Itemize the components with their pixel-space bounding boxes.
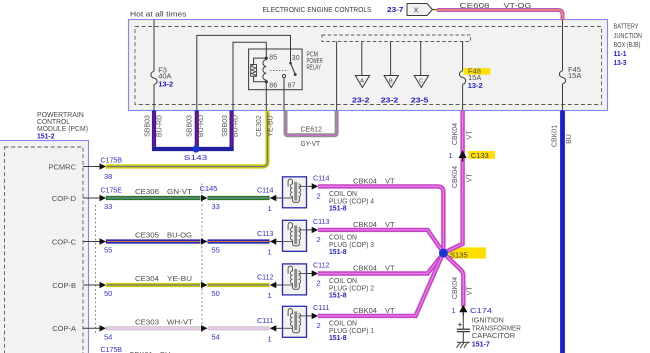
coil on plug (COP) 4 box <box>283 177 307 208</box>
wire SBB03 BU-RD from relay pin 85 <box>230 111 234 150</box>
svg-text:38: 38 <box>104 172 112 181</box>
powertrain control module (PCM) outline <box>0 141 89 353</box>
svg-text:C175B: C175B <box>101 345 123 353</box>
battery junction box (BJB) outline <box>129 20 608 111</box>
svg-text:JUNCTION: JUNCTION <box>614 31 643 40</box>
svg-text:151-2: 151-2 <box>37 131 55 140</box>
svg-text:50: 50 <box>104 289 112 298</box>
coil 3 symbol <box>283 223 306 246</box>
svg-text:2: 2 <box>317 192 321 201</box>
highlight on fuse F48 label <box>464 68 491 74</box>
label F48 15A 13-2 <box>468 67 483 90</box>
svg-text:23-2: 23-2 <box>381 96 399 105</box>
svg-text:COP-A: COP-A <box>52 324 76 333</box>
svg-text:23-2: 23-2 <box>352 96 370 105</box>
svg-text:VT: VT <box>467 286 474 296</box>
svg-text:CBK04: CBK04 <box>353 306 377 315</box>
relay pin 87 contact <box>282 75 285 78</box>
svg-text:CE304: CE304 <box>135 274 159 283</box>
coil 2 output arrow <box>307 273 313 275</box>
svg-text:C113: C113 <box>257 229 274 238</box>
svg-text:SBB03: SBB03 <box>187 115 194 137</box>
wire CE303 WH-VT segment 2 <box>208 326 270 330</box>
svg-text:55: 55 <box>104 246 112 255</box>
svg-text:CE612: CE612 <box>301 125 323 134</box>
coil 4 symbol <box>283 179 306 202</box>
svg-text:COP-B: COP-B <box>52 281 76 290</box>
pin stub PCMRC <box>83 166 101 168</box>
connector CE612 GY-VT u-loop from relay pin 87 <box>286 111 337 136</box>
svg-text:Hot at all times: Hot at all times <box>130 9 187 18</box>
svg-text:BOX (BJB): BOX (BJB) <box>614 40 641 49</box>
connector C145 arrow <box>201 195 208 201</box>
wire CE303 WH-VT segment 1 <box>106 326 201 330</box>
coil on plug (COP) 1 box <box>283 306 307 337</box>
coil 2 symbol <box>283 266 306 289</box>
relay U-box PCM POWER RELAY <box>249 49 303 90</box>
connector C113 pin 1 arrow <box>270 238 277 244</box>
wire CE302 YE-BU from relay pin 86 to PCMRC <box>106 111 268 167</box>
coil on plug (COP) 3 box <box>283 220 307 251</box>
relay actuation dotted link <box>270 69 287 71</box>
svg-text:CE306: CE306 <box>135 187 159 196</box>
svg-text:C111: C111 <box>257 316 274 325</box>
fuse F45 <box>559 71 565 84</box>
wire: relay pin 30 feed (top horizontal) <box>197 35 291 110</box>
svg-text:VT: VT <box>385 264 395 273</box>
svg-text:YE-BU: YE-BU <box>167 274 192 283</box>
wire CBK04 VT from coil 4 to S135 <box>318 186 443 252</box>
coil 1 symbol <box>283 309 306 333</box>
svg-text:C133: C133 <box>471 151 489 160</box>
fuse F3 <box>151 71 157 84</box>
coil on plug (COP) 2 box <box>283 264 307 295</box>
svg-text:VT: VT <box>466 130 473 140</box>
svg-text:COP-C: COP-C <box>52 237 77 246</box>
wire CE608 VT-OG from X to F45 <box>437 10 563 20</box>
wire: relay pin 85 feed <box>233 42 266 110</box>
svg-text:C175B: C175B <box>101 156 123 165</box>
svg-text:CBK04: CBK04 <box>353 177 377 186</box>
wire CBK01 BU from F45 down right side <box>560 111 565 353</box>
svg-text:GY-VT: GY-VT <box>301 139 321 148</box>
wire CE306 GN-VT segment 2 <box>208 196 270 200</box>
svg-text:2: 2 <box>317 279 321 288</box>
svg-text:CE303: CE303 <box>135 318 159 327</box>
svg-text:C: C <box>419 78 423 84</box>
svg-text:C114: C114 <box>313 174 330 183</box>
svg-text:1: 1 <box>452 306 456 315</box>
svg-text:13-2: 13-2 <box>158 79 173 88</box>
pin stub COP-D <box>83 197 101 199</box>
splice S143 dot <box>192 145 199 152</box>
svg-text:B: B <box>389 78 393 84</box>
relay pin labels <box>269 54 299 89</box>
svg-text:BU-RD: BU-RD <box>233 115 240 137</box>
svg-text:S143: S143 <box>184 153 208 162</box>
connector C174 in-line arrow <box>459 305 467 313</box>
svg-text:55: 55 <box>212 246 220 255</box>
svg-text:WH-VT: WH-VT <box>167 318 193 327</box>
svg-text:86: 86 <box>269 83 277 90</box>
wire CE304 YE-BU segment 2 <box>208 283 270 287</box>
wire CE305 BU-OG segment 1 <box>106 239 201 243</box>
fuse F48 <box>460 71 466 85</box>
connector C145 arrow <box>201 325 208 331</box>
svg-text:13-2: 13-2 <box>468 81 483 90</box>
svg-text:CBK04: CBK04 <box>452 277 459 299</box>
wire CBK04 VT from coil 1 to S135 <box>318 254 443 316</box>
svg-text:1: 1 <box>268 334 272 343</box>
wire into fuse F48 <box>462 42 464 71</box>
highlight on connector C133 label <box>468 151 495 159</box>
relay suppression resistor <box>251 58 267 82</box>
svg-text:11-1: 11-1 <box>614 49 627 58</box>
svg-text:VT: VT <box>385 220 395 229</box>
svg-text:CE305: CE305 <box>135 231 159 240</box>
pin stub COP-C <box>83 241 101 243</box>
relay switch pivot pin 30 <box>289 62 292 65</box>
wire CBK04 VT from S135 to C174 <box>443 253 463 307</box>
wire to CE612 right leg <box>336 42 338 111</box>
PCM inner dashed border <box>5 147 84 353</box>
wire CE304 YE-BU segment 1 <box>106 283 201 287</box>
relay pin 86 terminal <box>265 80 268 83</box>
dashed connector line C145 <box>201 184 203 334</box>
coil 4 output arrow <box>307 185 313 187</box>
svg-text:ELECTRONIC ENGINE CONTROLS: ELECTRONIC ENGINE CONTROLS <box>263 5 372 14</box>
svg-text:1: 1 <box>268 291 272 300</box>
svg-text:50: 50 <box>212 289 220 298</box>
svg-text:23-7: 23-7 <box>387 5 404 14</box>
svg-text:CBK04: CBK04 <box>353 220 377 229</box>
svg-text:SBB03: SBB03 <box>222 115 229 137</box>
svg-text:BU-OG: BU-OG <box>167 231 192 240</box>
svg-text:15A: 15A <box>568 71 581 80</box>
svg-text:30: 30 <box>292 55 300 62</box>
PCM name text <box>37 110 88 141</box>
svg-text:C145: C145 <box>200 184 218 193</box>
svg-text:VT-OG: VT-OG <box>504 1 532 10</box>
svg-text:PCMRC: PCMRC <box>49 162 77 171</box>
wire: relay pin 86 down and out <box>265 82 267 111</box>
svg-text:33: 33 <box>104 202 112 211</box>
wire CBK04 VT from coil 2 to S135 <box>318 253 443 273</box>
coil 3 output arrow <box>307 229 313 231</box>
capacitor name <box>472 316 521 349</box>
pin stub COP-A <box>83 327 101 329</box>
svg-text:CE302: CE302 <box>256 115 263 137</box>
svg-text:151-8: 151-8 <box>329 247 347 256</box>
relay coil <box>263 60 266 80</box>
wire CE305 BU-OG segment 2 <box>208 239 270 243</box>
svg-text:33: 33 <box>212 202 220 211</box>
relay pin 85 terminal <box>265 57 268 60</box>
svg-text:BATTERY: BATTERY <box>614 22 639 31</box>
svg-text:2: 2 <box>317 321 321 330</box>
svg-text:A: A <box>360 78 364 84</box>
connector C112 pin 1 arrow <box>270 282 277 288</box>
svg-text:BU-RD: BU-RD <box>156 115 163 137</box>
svg-text:151-8: 151-8 <box>329 203 347 212</box>
svg-text:S135: S135 <box>450 251 468 260</box>
wire into triangle A <box>361 42 363 81</box>
svg-text:CBK04: CBK04 <box>452 123 459 145</box>
svg-text:CBK04: CBK04 <box>452 166 459 188</box>
svg-text:54: 54 <box>104 333 112 342</box>
svg-text:YE-BU: YE-BU <box>268 115 275 136</box>
svg-text:87: 87 <box>288 83 296 90</box>
svg-text:54: 54 <box>212 333 220 342</box>
relay switch blade <box>291 63 296 74</box>
highlight on splice S135 label <box>449 247 486 258</box>
svg-text:SBB03: SBB03 <box>145 115 152 137</box>
svg-text:13-3: 13-3 <box>614 58 627 67</box>
svg-text:23-5: 23-5 <box>411 96 429 105</box>
BJB name text <box>614 22 643 67</box>
wire SBB03 BU-RD from relay pin 30 <box>195 111 199 150</box>
coil 1 output arrow <box>307 315 313 317</box>
svg-text:COP-D: COP-D <box>52 194 77 203</box>
splice S135 dot <box>439 249 448 258</box>
wire: hot feed into fuse F3 <box>153 20 155 72</box>
svg-text:VT: VT <box>385 177 395 186</box>
relay name text <box>307 52 323 72</box>
svg-text:1: 1 <box>449 151 453 160</box>
svg-text:C111: C111 <box>313 303 330 312</box>
dashed connector line C175E <box>95 205 97 333</box>
connector C145 arrow <box>201 282 208 288</box>
wire: relay pin 87 down and out <box>283 78 285 111</box>
wire CE306 GN-VT segment 1 <box>106 196 201 200</box>
wire into fuse F45 <box>562 20 564 71</box>
svg-text:RELAY: RELAY <box>307 65 322 72</box>
svg-text:GN-VT: GN-VT <box>167 187 192 196</box>
svg-text:BU: BU <box>566 134 573 144</box>
svg-text:C114: C114 <box>257 186 274 195</box>
ground symbol <box>457 342 470 348</box>
svg-text:C113: C113 <box>313 217 330 226</box>
svg-text:C112: C112 <box>257 273 274 282</box>
svg-text:C112: C112 <box>313 261 330 270</box>
splice bus S143 <box>152 147 234 151</box>
svg-text:X: X <box>414 6 419 15</box>
svg-text:151-7: 151-7 <box>472 340 490 349</box>
connector C114 pin 1 arrow <box>270 195 277 201</box>
triangle connector A <box>355 76 369 88</box>
label F45 15A <box>568 65 581 80</box>
svg-text:CE608: CE608 <box>460 1 490 10</box>
wire CBK04 VT from F48 to splice S135 <box>444 111 463 253</box>
svg-text:1: 1 <box>268 248 272 257</box>
svg-text:CBK01: CBK01 <box>551 125 558 147</box>
svg-text:2: 2 <box>317 235 321 244</box>
svg-text:1: 1 <box>268 204 272 213</box>
BJB inner dashed strip (bus bar) <box>322 35 471 42</box>
connector C111 pin 1 arrow <box>270 325 277 331</box>
svg-text:C174: C174 <box>470 306 492 315</box>
svg-text:85: 85 <box>269 54 277 61</box>
wire SBB03 BU-RD from F3 <box>152 111 156 150</box>
label F3 40A 13-2 <box>158 66 173 89</box>
svg-text:151-8: 151-8 <box>329 333 347 342</box>
triangle connector B <box>384 76 398 88</box>
wire into triangle C <box>420 42 422 81</box>
svg-text:BU-RD: BU-RD <box>198 115 205 137</box>
wire CBK04 VT from coil 3 to S135 <box>318 230 443 253</box>
svg-text:C175E: C175E <box>101 186 123 195</box>
connector C133 in-line arrow <box>459 150 467 158</box>
ignition transformer capacitor <box>457 315 470 343</box>
svg-text:VT: VT <box>385 306 395 315</box>
pin stub COP-B <box>83 284 101 286</box>
off-page connector X <box>407 4 438 16</box>
svg-text:VT: VT <box>466 173 473 183</box>
svg-text:CBK04: CBK04 <box>353 264 377 273</box>
svg-text:151-8: 151-8 <box>329 290 347 299</box>
wire into triangle B <box>390 42 392 81</box>
connector C145 arrow <box>201 238 208 244</box>
BJB inner dashed border <box>135 27 602 105</box>
triangle connector C <box>414 76 428 88</box>
